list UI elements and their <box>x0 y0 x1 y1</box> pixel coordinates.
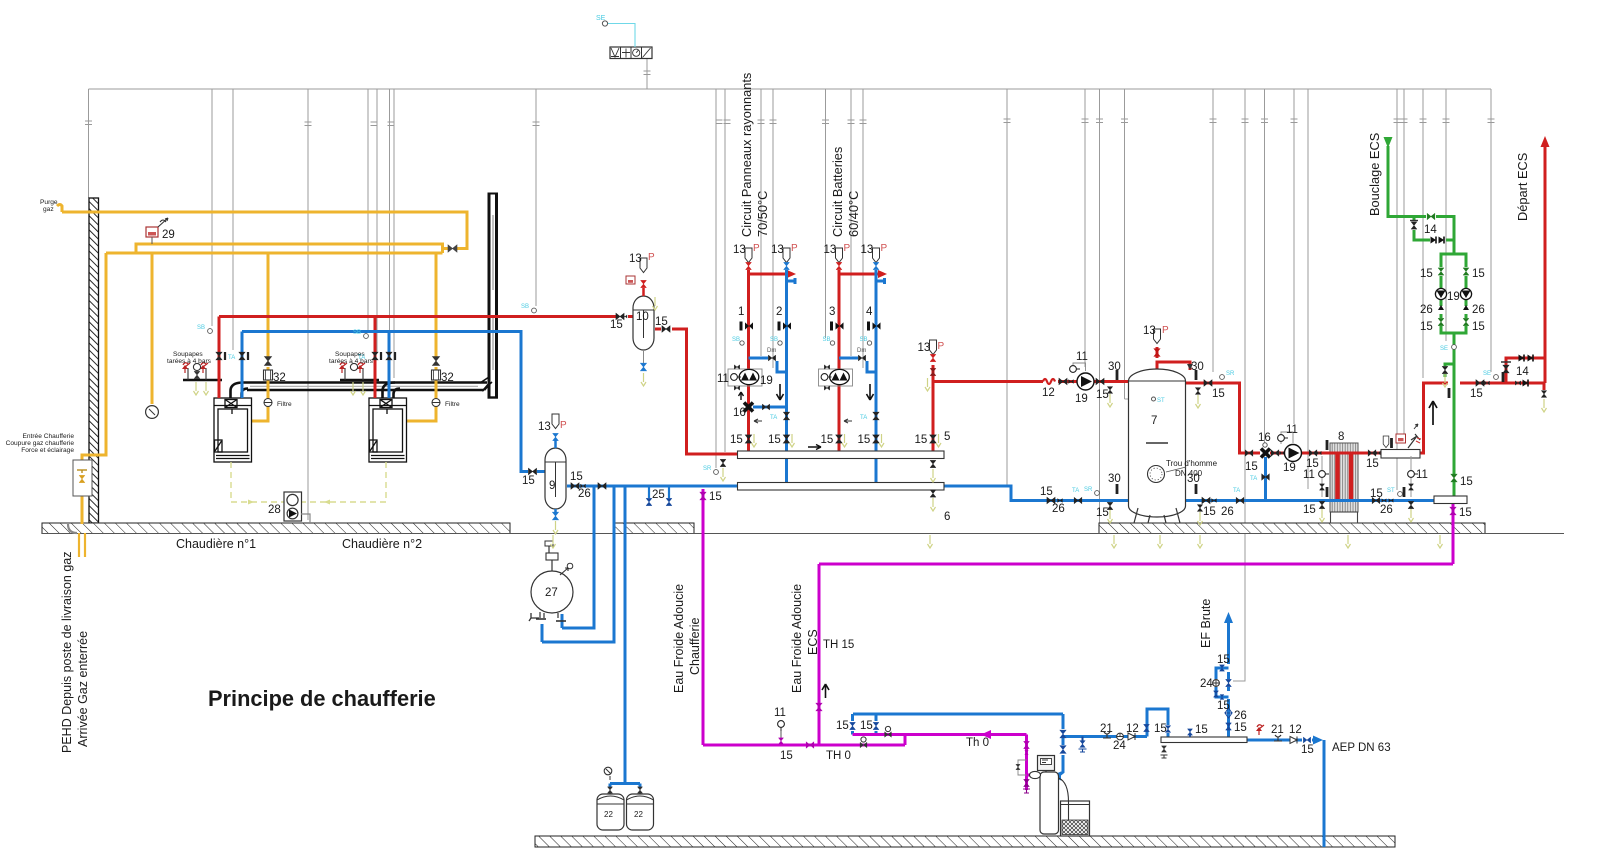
svg-text:Dm: Dm <box>857 348 866 354</box>
svg-text:tarées à 4 bars: tarées à 4 bars <box>167 358 212 365</box>
svg-text:26: 26 <box>1420 304 1433 316</box>
svg-text:SB: SB <box>770 337 778 343</box>
link <box>904 735 907 746</box>
gas entry valve <box>79 475 85 482</box>
chimney elbow <box>484 384 489 390</box>
boiler1 return riser <box>241 332 244 399</box>
bottle 9 outlet main <box>567 485 738 488</box>
drain stub right <box>1543 383 1546 390</box>
circuit 4 top tee <box>876 280 885 283</box>
flow arrow on collector <box>808 445 821 450</box>
svg-text:12: 12 <box>1289 724 1302 736</box>
svg-text:Th 0: Th 0 <box>966 737 989 749</box>
circuit riser 4 <box>875 270 878 483</box>
svg-text:15: 15 <box>858 434 871 446</box>
svg-text:21: 21 <box>1100 723 1113 735</box>
bypass 14 stub <box>1413 217 1416 222</box>
svg-text:11: 11 <box>774 707 786 719</box>
tank27 stubs <box>561 614 564 628</box>
small gauge left <box>604 767 612 775</box>
svg-text:5: 5 <box>944 431 950 443</box>
svg-text:11: 11 <box>1303 469 1315 481</box>
TH15 riser valve <box>816 703 822 711</box>
after header: 21 12 15 <box>1256 725 1264 735</box>
flow up arrow <box>1429 401 1437 425</box>
svg-text:SB: SB <box>860 337 868 343</box>
boiler1 gas drop <box>267 253 270 359</box>
svg-text:TA: TA <box>358 355 365 361</box>
to exchanger primary <box>1270 452 1330 455</box>
svg-text:Coupure gaz chaufferie: Coupure gaz chaufferie <box>6 440 75 447</box>
Dm valves on mixing bridges <box>768 355 775 361</box>
purge-to-supply valve connection <box>443 247 449 250</box>
riser2 13P <box>783 248 790 263</box>
boiler2 supply riser <box>374 317 377 399</box>
brine tank <box>1061 801 1090 836</box>
boiler2 gas regulator 32 <box>432 370 441 380</box>
left small texts <box>6 433 75 454</box>
svg-text:15: 15 <box>1245 461 1258 473</box>
svg-text:SR: SR <box>1226 371 1235 377</box>
14 bypass valve w/cap <box>1503 365 1509 373</box>
legs <box>1134 508 1138 523</box>
pump 19 <box>1077 373 1094 390</box>
svg-text:Purge: Purge <box>40 199 58 206</box>
boiler2 return riser <box>388 332 391 399</box>
circuit riser 3 <box>838 270 841 452</box>
svg-text:12: 12 <box>1042 387 1055 399</box>
svg-text:TH 15: TH 15 <box>823 639 854 651</box>
svg-text:13: 13 <box>824 244 837 256</box>
3way 16 outlet circuit1 <box>753 406 787 409</box>
riser5 13P <box>930 340 937 355</box>
frame top line <box>89 88 1492 90</box>
svg-text:6: 6 <box>944 511 950 523</box>
svg-text:30: 30 <box>1187 473 1200 485</box>
svg-text:Filtre: Filtre <box>277 401 292 408</box>
supply header valve at bottle 10 <box>616 313 627 319</box>
ECS feed riser TH15 <box>818 564 821 745</box>
svg-text:Bouclage ECS: Bouclage ECS <box>1367 133 1382 216</box>
svg-text:P: P <box>753 243 760 254</box>
svg-text:P: P <box>791 243 798 254</box>
svg-text:24: 24 <box>1113 740 1126 752</box>
svg-text:15: 15 <box>570 471 583 483</box>
svg-text:SR: SR <box>703 466 712 472</box>
vessels 22 header <box>610 782 640 785</box>
softener cold feed <box>853 713 1063 716</box>
EF brute arrowhead <box>1224 612 1233 623</box>
boiler1 supply riser <box>218 317 221 399</box>
svg-text:15: 15 <box>1203 506 1216 518</box>
boiler1 gas regulator 32 <box>264 370 273 380</box>
svg-text:3: 3 <box>829 306 835 318</box>
svg-text:TA: TA <box>860 415 867 421</box>
softener outlet run <box>1063 735 1147 738</box>
mixing bridge circuit 1 <box>749 357 769 360</box>
circuit 2 top tee <box>787 280 796 283</box>
SB sensors under balancing valves <box>740 341 744 345</box>
riser4 13P <box>873 248 880 263</box>
vent arrow <box>1187 364 1193 370</box>
return pipe crossing exchanger <box>1325 499 1365 502</box>
svg-text:Trou d'homme: Trou d'homme <box>1166 459 1218 468</box>
svg-text:19: 19 <box>1283 462 1296 474</box>
long basement header <box>819 563 1453 566</box>
svg-text:30: 30 <box>1191 361 1204 373</box>
gas pressure gauge on riser x152 <box>146 406 159 419</box>
SB probes <box>208 329 213 334</box>
svg-text:70/50°C: 70/50°C <box>755 191 770 237</box>
circuit riser 1 <box>747 270 750 452</box>
main supply header <box>219 315 617 318</box>
softener feed drop <box>1025 735 1028 771</box>
ST probe <box>1152 397 1156 401</box>
drains 25 on return main <box>648 486 650 498</box>
svg-text:15: 15 <box>1370 488 1383 500</box>
svg-text:Circuit Panneaux rayonnants: Circuit Panneaux rayonnants <box>739 73 754 237</box>
svg-text:28: 28 <box>268 504 281 516</box>
pressure switch 29 box <box>146 227 158 237</box>
collector drains below <box>720 459 936 467</box>
side stub with valve <box>1445 364 1454 366</box>
svg-text:P: P <box>648 252 655 263</box>
svg-text:Soupapes: Soupapes <box>173 351 203 358</box>
svg-text:19: 19 <box>1447 291 1460 303</box>
branch to storage tank <box>933 380 1043 383</box>
primary pipe crossing exchanger <box>1325 452 1381 455</box>
svg-text:22: 22 <box>604 810 613 819</box>
svg-text:SB: SB <box>197 325 205 331</box>
EF brute bypass <box>1216 687 1229 697</box>
svg-text:tarées à 4 bars: tarées à 4 bars <box>329 358 374 365</box>
svg-text:Eau Froide Adoucie: Eau Froide Adoucie <box>790 584 804 693</box>
svg-text:29: 29 <box>162 229 175 241</box>
svg-text:Filtre: Filtre <box>445 401 460 408</box>
buried pipe elbow mark <box>68 524 77 533</box>
svg-text:SE: SE <box>1440 346 1448 352</box>
break ticks on leader lines <box>85 71 1495 126</box>
svg-text:4: 4 <box>866 306 873 318</box>
circuit 3 branch arrow <box>839 273 884 276</box>
tank top safety stub <box>1157 362 1190 370</box>
gas supply lower header <box>106 252 443 255</box>
blue side valves <box>1372 497 1393 503</box>
svg-text:SB: SB <box>823 337 831 343</box>
Th0 arrowhead on upper header <box>981 730 991 739</box>
svg-text:Entrée Chaufferie: Entrée Chaufferie <box>22 433 74 440</box>
resin cylinder <box>1040 772 1059 834</box>
svg-text:Principe de chaufferie: Principe de chaufferie <box>208 686 436 711</box>
bottle 10 outlet to collector <box>655 328 661 331</box>
ECS depart riser <box>1544 144 1547 383</box>
svg-text:15: 15 <box>1217 700 1230 712</box>
circuit riser 2 <box>785 270 788 483</box>
AEP arrowhead <box>1313 736 1323 745</box>
top safety group <box>551 560 553 571</box>
sensor riser x152 <box>151 253 154 404</box>
svg-text:15: 15 <box>1472 268 1485 280</box>
svg-text:15: 15 <box>1472 321 1485 333</box>
svg-text:15: 15 <box>1420 321 1433 333</box>
3way valve 16 circuit1 <box>744 403 753 412</box>
riser 5 <box>932 365 935 452</box>
SE sensor link <box>608 24 635 48</box>
svg-text:P: P <box>938 341 945 352</box>
svg-text:P: P <box>844 243 851 254</box>
svg-text:TA: TA <box>1250 476 1257 482</box>
boiler2 gas filter <box>432 399 440 407</box>
manhole <box>1148 466 1165 483</box>
svg-text:ECS: ECS <box>806 629 820 655</box>
svg-text:8: 8 <box>1338 431 1344 443</box>
bypass frame <box>1018 760 1027 775</box>
control head <box>1038 756 1055 771</box>
flex 12 <box>1043 379 1055 384</box>
svg-text:Chaufferie: Chaufferie <box>688 618 702 675</box>
svg-text:SB: SB <box>732 337 740 343</box>
svg-text:SR: SR <box>1084 487 1093 493</box>
svg-text:Dm: Dm <box>767 348 776 354</box>
svg-text:22: 22 <box>634 810 643 819</box>
svg-text:11: 11 <box>1076 351 1088 363</box>
tank top 13P <box>1154 329 1161 344</box>
boiler1 flue elbow <box>231 383 244 399</box>
condensate pump 28 <box>284 492 302 521</box>
flow down arrows <box>777 384 784 400</box>
svg-text:26: 26 <box>1221 506 1234 518</box>
drop from ECS collector <box>1452 504 1455 564</box>
svg-text:15: 15 <box>836 720 849 732</box>
expansion drops from main <box>562 486 594 628</box>
gas entry wall box <box>73 460 92 496</box>
svg-text:10: 10 <box>636 311 649 323</box>
svg-text:15: 15 <box>1234 722 1247 734</box>
circuit 1 branch arrow <box>749 273 794 276</box>
twin pump parallel branches <box>1441 254 1454 267</box>
svg-text:15: 15 <box>1212 388 1225 400</box>
floor segment B <box>613 523 694 534</box>
svg-text:TH 0: TH 0 <box>826 750 851 762</box>
svg-text:15: 15 <box>821 434 834 446</box>
boiler2 riser valves <box>372 352 378 360</box>
gas riser from entry <box>82 253 106 461</box>
svg-text:15: 15 <box>768 434 781 446</box>
svg-text:32: 32 <box>441 372 454 384</box>
svg-text:16: 16 <box>1258 432 1271 444</box>
lower TH0 header <box>703 744 905 747</box>
purge gaz line <box>57 205 62 213</box>
bouclage entry riser <box>1388 146 1426 217</box>
bouclage arrowhead (down) <box>1384 137 1393 148</box>
svg-text:26: 26 <box>1052 503 1065 515</box>
svg-text:2: 2 <box>776 306 782 318</box>
svg-text:P: P <box>1162 325 1169 336</box>
svg-text:30: 30 <box>1108 361 1121 373</box>
safety group outlet up <box>1420 383 1448 453</box>
svg-text:26: 26 <box>1380 504 1393 516</box>
floor segment A <box>42 523 510 534</box>
riser3 13P <box>836 248 843 263</box>
svg-text:ST: ST <box>1387 488 1395 494</box>
sensor string right of exchanger <box>1410 456 1412 497</box>
drain on depart <box>1541 391 1546 398</box>
gauge 11 on TH0 <box>778 721 785 731</box>
svg-text:7: 7 <box>1151 415 1157 427</box>
svg-text:15: 15 <box>1154 723 1167 735</box>
return main to tank <box>944 486 1330 501</box>
svg-text:Chaudière n°1: Chaudière n°1 <box>176 537 256 551</box>
svg-text:15: 15 <box>1301 744 1314 756</box>
circuit branch arrowheads <box>787 270 796 278</box>
magenta make-up valve <box>700 492 706 500</box>
tank outlet <box>1186 383 1261 453</box>
balancing valves <box>740 322 754 331</box>
bottom fittings <box>540 612 558 618</box>
floor segment C <box>1099 523 1485 534</box>
svg-text:P: P <box>881 243 888 254</box>
svg-text:26: 26 <box>1472 304 1485 316</box>
svg-text:15: 15 <box>610 319 623 331</box>
svg-text:13: 13 <box>629 253 642 265</box>
svg-text:1: 1 <box>738 306 744 318</box>
down to collector <box>1453 333 1456 474</box>
svg-text:15: 15 <box>1460 476 1473 488</box>
AEP drop <box>1323 740 1326 847</box>
circuit pumps (twin) <box>728 369 762 386</box>
svg-text:11: 11 <box>717 373 729 385</box>
sensor string left of exchanger <box>1321 456 1323 497</box>
floor base line <box>42 533 1564 535</box>
distribution after header <box>1247 739 1302 742</box>
riser1 13P <box>745 248 752 263</box>
svg-text:15: 15 <box>780 750 793 762</box>
boiler1 riser valves <box>216 352 222 360</box>
return drop valve to bottle 9 <box>528 468 536 474</box>
svg-text:15: 15 <box>709 491 722 503</box>
entry box drop to buried pipe <box>81 495 84 524</box>
big pipe header <box>1161 737 1247 743</box>
svg-text:19: 19 <box>1075 393 1088 405</box>
svg-text:EF Brute: EF Brute <box>1199 599 1213 648</box>
svg-text:15: 15 <box>1420 268 1433 280</box>
svg-text:25: 25 <box>652 489 665 501</box>
svg-text:9: 9 <box>549 480 555 492</box>
svg-text:21: 21 <box>1271 724 1284 736</box>
svg-text:15: 15 <box>1096 389 1109 401</box>
svg-text:13: 13 <box>918 342 931 354</box>
svg-text:TA: TA <box>1233 488 1240 494</box>
svg-text:15: 15 <box>1217 654 1230 666</box>
svg-text:32: 32 <box>273 372 286 384</box>
svg-text:15: 15 <box>655 316 668 328</box>
boiler1 gas filter <box>264 399 272 407</box>
svg-text:15: 15 <box>1195 724 1208 736</box>
tank outlet fittings <box>1195 370 1198 380</box>
mixing bridge circuit 3 <box>839 357 858 360</box>
svg-text:13: 13 <box>771 244 784 256</box>
svg-text:Eau Froide Adoucie: Eau Froide Adoucie <box>672 584 686 693</box>
TA valves on return risers <box>783 412 789 420</box>
svg-text:SE: SE <box>596 15 606 22</box>
depart ECS arrowhead <box>1541 136 1550 147</box>
svg-text:TA: TA <box>1072 488 1079 494</box>
gauge 11 <box>1073 363 1086 372</box>
svg-text:Arrivée Gaz enterrée: Arrivée Gaz enterrée <box>76 631 90 747</box>
svg-text:TA: TA <box>228 355 235 361</box>
svg-text:27: 27 <box>545 587 558 599</box>
svg-text:SB: SB <box>353 330 361 336</box>
svg-text:26: 26 <box>1234 710 1247 722</box>
frame left drop <box>88 89 90 198</box>
svg-text:30: 30 <box>1108 473 1121 485</box>
svg-text:ST: ST <box>1157 398 1165 404</box>
svg-text:Force et éclairage: Force et éclairage <box>21 447 74 454</box>
overflow hose <box>1059 778 1069 820</box>
svg-text:11: 11 <box>1286 424 1298 436</box>
TH15 arrow <box>822 684 829 698</box>
svg-text:13: 13 <box>538 421 551 433</box>
boiler2 flue elbow <box>383 383 396 399</box>
isolation valves + drains at collector <box>745 435 936 443</box>
3way 16 (right) drop <box>1264 457 1267 501</box>
svg-text:15: 15 <box>1040 486 1053 498</box>
svg-text:15: 15 <box>1366 458 1379 470</box>
svg-text:13: 13 <box>733 244 746 256</box>
upper Th0 header <box>853 733 1027 736</box>
svg-text:15: 15 <box>1096 507 1109 519</box>
svg-text:P: P <box>560 420 567 431</box>
right of tank <box>1202 497 1217 503</box>
gas supply upper header <box>136 244 443 253</box>
softener inlet arrowhead <box>1051 772 1061 781</box>
svg-text:14: 14 <box>1424 224 1437 236</box>
exchanger internal primary drops <box>1335 453 1340 499</box>
svg-text:Départ ECS: Départ ECS <box>1515 153 1530 221</box>
svg-text:26: 26 <box>578 488 591 500</box>
chaufferie make-up riser <box>702 489 705 745</box>
EF brute riser fittings <box>1226 723 1232 730</box>
boiler2 gas double valve <box>432 357 439 366</box>
svg-text:TA: TA <box>770 415 777 421</box>
svg-text:15: 15 <box>915 434 928 446</box>
svg-text:SE: SE <box>1483 371 1491 377</box>
svg-text:13: 13 <box>861 244 874 256</box>
svg-text:gaz: gaz <box>43 206 54 213</box>
svg-text:Circuit Batteries: Circuit Batteries <box>830 147 845 237</box>
svg-text:Chaudière n°2: Chaudière n°2 <box>342 537 422 551</box>
condensate dashed lines to pump 28 <box>231 462 386 502</box>
bottle 9 outlet valves <box>571 483 586 489</box>
svg-text:16: 16 <box>733 407 746 419</box>
svg-text:11: 11 <box>1416 469 1428 481</box>
svg-text:AEP DN 63: AEP DN 63 <box>1332 742 1391 754</box>
svg-text:15: 15 <box>1459 507 1472 519</box>
svg-text:PEHD Depuis poste de livraison: PEHD Depuis poste de livraison gaz <box>60 552 74 754</box>
svg-text:60/40°C: 60/40°C <box>846 191 861 237</box>
svg-text:15: 15 <box>1303 504 1316 516</box>
svg-text:15: 15 <box>860 720 873 732</box>
svg-text:13: 13 <box>1143 325 1156 337</box>
EF brute riser <box>1227 699 1230 737</box>
svg-text:15: 15 <box>522 475 535 487</box>
main return header <box>242 332 528 472</box>
softener feed valves <box>1024 741 1030 754</box>
svg-text:14: 14 <box>1516 366 1529 378</box>
gas purge/supply tie valve <box>448 245 457 252</box>
svg-text:24: 24 <box>1200 678 1213 690</box>
svg-text:19: 19 <box>760 375 773 387</box>
